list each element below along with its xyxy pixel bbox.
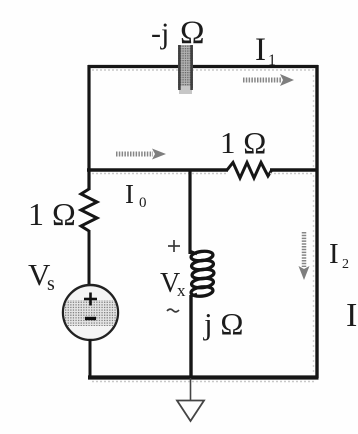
label I2: [329, 238, 349, 272]
capacitor -j Ohm (gray plate bar over top wire): [178, 45, 193, 94]
wire: top horizontal (node between Vs branch and capacitor): [88, 67, 318, 71]
polarity - (tilde) for Vx: [167, 309, 179, 312]
wire: left vertical, top segment: [87, 65, 90, 190]
svg-text:Ω: Ω: [180, 15, 205, 51]
svg-text:1 Ω: 1 Ω: [28, 196, 76, 232]
polarity - inside source: [85, 317, 96, 320]
label Vx: [160, 268, 186, 300]
voltage source Vs (circle with + / -): [62, 285, 119, 340]
wire: middle horizontal, right of resistor: [270, 170, 318, 174]
svg-text:-j: -j: [151, 17, 169, 50]
wire: left vertical, bottom segment: [89, 339, 92, 379]
current arrow I2 (gray, pointing down, left of right wire): [299, 232, 310, 280]
current arrow I0 (gray, pointing right, above middle wire): [116, 149, 166, 160]
svg-text:x: x: [177, 281, 186, 300]
svg-text:I: I: [346, 297, 357, 334]
wire: left vertical, between resistor and source: [88, 230, 91, 286]
svg-text:j Ω: j Ω: [203, 306, 243, 341]
wire: middle horizontal, left of resistor: [87, 170, 228, 174]
wire: bottom horizontal (ground net): [88, 378, 319, 382]
ground (stem + open triangle): [177, 378, 204, 421]
polarity + inside source: [84, 293, 97, 306]
svg-text:1 Ω: 1 Ω: [220, 125, 266, 160]
resistor 1 Ohm (left branch): [81, 189, 97, 231]
label I0: [125, 179, 147, 211]
wire: middle vertical, above inductor: [188, 170, 191, 254]
svg-text:I: I: [329, 238, 339, 270]
resistor 1 Ohm (middle horizontal branch): [227, 163, 272, 179]
svg-text:1: 1: [268, 52, 276, 69]
svg-text:I: I: [255, 32, 266, 68]
wire: right vertical branch: [314, 65, 318, 378]
wire: middle vertical, below inductor: [189, 295, 192, 378]
label Vs: [28, 257, 55, 295]
polarity + for Vx: [168, 240, 180, 252]
current arrow I1 (gray, pointing right, below top wire): [243, 74, 294, 86]
svg-text:0: 0: [139, 195, 147, 211]
value label -j Ohm (capacitor): [151, 15, 205, 51]
svg-text:2: 2: [342, 257, 349, 272]
inductor j Ohm (coil): [190, 250, 214, 297]
label I1: [255, 32, 276, 69]
svg-text:s: s: [47, 273, 55, 295]
svg-text:I: I: [125, 179, 134, 209]
